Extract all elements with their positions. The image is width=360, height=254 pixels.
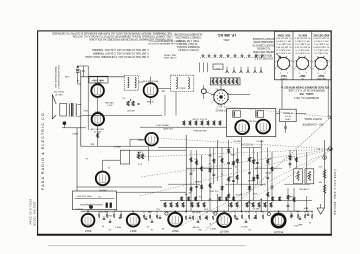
tube socket view 6SQ7	[315, 57, 327, 69]
wire : V5 feed	[102, 160, 104, 171]
svg-text:7: 7	[286, 55, 287, 57]
capacitor C5 trimmer circle	[201, 89, 206, 94]
svg-text:TRIMMERS FOR MAX.: TRIMMERS FOR MAX.	[176, 45, 200, 48]
capacitor grid caps near tubes	[165, 212, 168, 215]
wire : chart drop	[281, 80, 283, 109]
svg-text:25 MF: 25 MF	[264, 171, 270, 173]
svg-text:5: 5	[312, 60, 313, 62]
resistor R20 in power box	[87, 204, 95, 206]
svg-text:REF 28: REF 28	[113, 145, 121, 147]
svg-text:HT 6.3AC FL 0: HT 6.3AC FL 0	[294, 43, 309, 46]
svg-text:I.F. 456: I.F. 456	[146, 100, 154, 102]
wire : v x261.2	[260, 140, 262, 186]
svg-text:8 MF: 8 MF	[252, 192, 257, 194]
svg-text:REF 21: REF 21	[233, 139, 241, 141]
svg-text:.05 10 K .01 250: .05 10 K .01 250	[192, 117, 208, 119]
svg-text:8: 8	[310, 59, 311, 61]
svg-text:I.F. 456 KC: I.F. 456 KC	[215, 109, 227, 111]
node : pilot lamp	[323, 156, 327, 160]
tube V4	[145, 133, 158, 146]
svg-text:ANT. - CONVERTER: ANT. - CONVERTER	[302, 122, 323, 125]
svg-text:2- SET DIAL AT 1400 KC ADJ. C: 2- SET DIAL AT 1400 KC ADJ. C-2A ANT. TR…	[93, 52, 149, 55]
transformer T2 2nd IF	[171, 75, 194, 91]
svg-text:VOLTAGE READINGS TAKEN WITH SE: VOLTAGE READINGS TAKEN WITH SET	[283, 85, 329, 88]
svg-text:1: 1	[230, 100, 231, 102]
svg-text:REF 28A: REF 28A	[105, 101, 114, 104]
svg-text:4: 4	[211, 101, 212, 103]
svg-text:SOCKET CONTACTS: SOCKET CONTACTS	[252, 43, 275, 46]
svg-text:470K: 470K	[235, 193, 240, 195]
node : AF coupling box	[120, 150, 129, 164]
svg-text:8: 8	[230, 93, 231, 95]
tube socket bottom view	[214, 90, 228, 104]
resistor R5	[97, 133, 99, 138]
svg-text:3: 3	[299, 72, 300, 74]
svg-text:22A: 22A	[161, 90, 165, 93]
svg-text:GR -7.5 KA 0 V: GR -7.5 KA 0 V	[313, 40, 328, 43]
svg-text:PL 250 SG 95 V: PL 250 SG 95 V	[275, 37, 291, 39]
svg-text:GR -7.5 KA 0 V: GR -7.5 KA 0 V	[276, 40, 291, 43]
svg-text:-OSC-: -OSC-	[223, 38, 231, 42]
svg-text:.05: .05	[198, 195, 202, 197]
tube V9 6V6-GT	[217, 213, 231, 227]
svg-text:2ND DET. 26A: 2ND DET. 26A	[90, 128, 104, 131]
svg-text:6: 6	[216, 88, 217, 90]
wire : V4 left lead	[130, 138, 145, 140]
wire : rail y147.6	[158, 147, 232, 149]
wire : bus y200.6	[160, 200, 312, 202]
capacitor C20 dark terminals	[106, 203, 108, 208]
svg-text:6K6-GT: 6K6-GT	[98, 189, 107, 191]
resistor R40	[323, 170, 326, 179]
svg-text:100: 100	[228, 175, 232, 177]
svg-text:3: 3	[318, 72, 319, 74]
wire : left vertical rail	[80, 70, 82, 146]
svg-text:METER 1000 OHMS: METER 1000 OHMS	[253, 50, 274, 52]
svg-text:TONE 50K: TONE 50K	[298, 188, 309, 190]
svg-text:1- SET DIAL AT 1500 KC ADJ. C: 1- SET DIAL AT 1500 KC ADJ. C-6A OSC. TR…	[92, 48, 149, 51]
svg-text:8: 8	[291, 59, 292, 61]
wire : v x148.8	[148, 145, 150, 161]
resistor extra above tubes	[180, 194, 280, 201]
svg-text:6SK7: 6SK7	[94, 110, 100, 112]
svg-text:150: 150	[269, 187, 273, 189]
node : output stage box	[227, 109, 276, 137]
wire : v x217.5	[217, 140, 219, 181]
wire : V1-V3 link	[97, 97, 99, 113]
svg-text:.05: .05	[108, 228, 112, 230]
svg-text:REF 3: REF 3	[114, 226, 121, 228]
svg-text:20 H: 20 H	[293, 224, 298, 226]
svg-text:©1946 John F. Rider, Publisher: ©1946 John F. Rider, Publisher	[333, 169, 336, 216]
svg-text:6SQ7: 6SQ7	[171, 229, 178, 233]
svg-text:1 MEG: 1 MEG	[194, 180, 201, 182]
tube V8 6SQ7	[168, 213, 182, 227]
svg-text:PER VOLT. LINE: PER VOLT. LINE	[255, 53, 272, 55]
svg-text:CORD VIEW: CORD VIEW	[163, 56, 177, 58]
svg-text:.02: .02	[248, 228, 252, 230]
svg-text:CONNECT SIGNAL GEN.: CONNECT SIGNAL GEN.	[175, 36, 201, 39]
wire : V2 up	[150, 77, 152, 83]
ground symbol	[317, 208, 324, 214]
wire : sheet border frame	[38, 31, 332, 234]
tube V5	[96, 172, 110, 186]
wire : v x186	[185, 135, 187, 211]
wire : rail y187	[77, 186, 162, 188]
wire : socket leads	[228, 94, 250, 96]
wire : v x306.8	[306, 152, 308, 183]
transformer T3 power box	[72, 191, 116, 210]
resistor R41	[323, 185, 326, 194]
svg-text:PAGE 22-6 FADA: PAGE 22-6 FADA	[30, 199, 33, 225]
svg-text:1: 1	[310, 66, 311, 68]
svg-text:MODEL 790,790T: MODEL 790,790T	[33, 201, 36, 226]
tube V12	[256, 120, 270, 134]
svg-text:OF 6SA7, ADJ. I.F.: OF 6SA7, ADJ. I.F.	[178, 42, 197, 45]
wire : V2 down	[150, 97, 152, 104]
svg-text:10K: 10K	[318, 181, 322, 183]
wire : gap stubs bottom row	[99, 211, 312, 213]
svg-text:8-: 8-	[209, 222, 211, 224]
tube socket view 6SA7	[278, 57, 290, 69]
svg-text:4: 4	[313, 67, 314, 69]
wire : trimmer row link	[200, 56, 263, 58]
wire : V2 to T2 box	[158, 88, 171, 90]
svg-text:100: 100	[217, 155, 221, 157]
svg-text:C-12: C-12	[147, 211, 152, 213]
svg-text:C-17 .05: C-17 .05	[99, 211, 108, 213]
capacitor C2A antenna trimmer stack	[76, 65, 79, 67]
wire : rail to output box	[140, 126, 227, 128]
svg-text:6SQ7: 6SQ7	[317, 74, 324, 77]
resistor strings inverter area	[247, 148, 259, 212]
svg-text:7: 7	[305, 55, 306, 57]
wire : rail y115.6	[81, 115, 162, 117]
node : speaker plug box	[280, 109, 297, 121]
svg-text:OPERATING ON 117 V. A.C. LINE.: OPERATING ON 117 V. A.C. LINE.	[288, 89, 325, 92]
svg-text:2: 2	[324, 71, 325, 73]
wire : ant top rail	[78, 65, 89, 67]
wire : bottom bus	[81, 210, 313, 212]
svg-text:OUTPUT AT 456 KC.: OUTPUT AT 456 KC.	[177, 48, 199, 51]
wire : rail y146	[81, 145, 148, 147]
transformer T4 marks	[233, 111, 241, 117]
tube V2	[144, 83, 158, 97]
wire : dial cord diagonals	[140, 106, 333, 231]
svg-text:47 K: 47 K	[137, 162, 142, 164]
resistor strings volume area	[208, 148, 223, 212]
svg-text:20: 20	[161, 227, 164, 229]
capacitor trimmer row	[202, 54, 264, 58]
svg-text:PWR 115V 60CY: PWR 115V 60CY	[76, 195, 92, 197]
wire : x88 drop	[87, 66, 89, 84]
svg-text:3: 3	[280, 72, 281, 74]
wire : rail y192	[116, 191, 186, 193]
wire : rail y168.2	[186, 167, 232, 169]
svg-text:CONV.: CONV.	[280, 77, 287, 79]
svg-text:VIEW: VIEW	[285, 117, 290, 119]
wire : speaker drop to power box	[76, 128, 78, 191]
node : bus junction dots	[87, 210, 307, 212]
svg-text:USE OUTSIDE AERIAL: USE OUTSIDE AERIAL	[55, 65, 58, 88]
node : dial pulley B	[328, 116, 331, 119]
resistor row y120	[183, 117, 221, 131]
svg-text:6V6-GT: 6V6-GT	[219, 230, 228, 234]
svg-text:3: 3	[217, 106, 218, 108]
tube V6 6SA7	[82, 214, 95, 227]
svg-text:C-2A: C-2A	[65, 75, 70, 78]
svg-text:470K: 470K	[247, 179, 252, 181]
svg-text:6SK7 I.F.: 6SK7 I.F.	[297, 33, 307, 35]
svg-text:47K: 47K	[194, 157, 198, 159]
svg-text:220K: 220K	[230, 153, 235, 155]
resistor strings output bias	[264, 148, 273, 212]
svg-text:HT 6.3AC FL 0: HT 6.3AC FL 0	[313, 43, 328, 46]
transformer T1 1st IF	[124, 75, 138, 90]
svg-text:6: 6	[298, 55, 299, 57]
svg-text:REF 22: REF 22	[256, 139, 264, 141]
svg-text:3- SET DIAL AT 600 KC ADJ. C: 3- SET DIAL AT 600 KC ADJ. C-6B PADDER, …	[85, 55, 149, 58]
svg-text:FADA RADIO & ELECTRIC CO.: FADA RADIO & ELECTRIC CO.	[41, 110, 45, 190]
svg-text:REF. 12: REF. 12	[93, 130, 101, 132]
svg-text:5Y3-GT: 5Y3-GT	[274, 230, 283, 234]
capacitor C1 line cap	[82, 71, 85, 72]
wire : plug box links	[276, 113, 280, 115]
svg-text:GR -7.5 KA 0 V: GR -7.5 KA 0 V	[294, 40, 309, 43]
svg-text:MEASURED FROM: MEASURED FROM	[253, 40, 273, 43]
tube V11	[235, 120, 249, 134]
svg-text:1 MEG: 1 MEG	[136, 151, 143, 153]
wire : V1 plate up	[97, 77, 99, 85]
svg-text:6SQ7: 6SQ7	[137, 138, 144, 140]
svg-text:25M: 25M	[108, 214, 112, 216]
svg-text:456 KC: 456 KC	[178, 86, 185, 88]
svg-text:8 MF: 8 MF	[303, 207, 308, 209]
resistor filament string box	[210, 78, 240, 85]
svg-text:HT 6.3 AC 0 V: HT 6.3 AC 0 V	[276, 51, 290, 54]
speaker SP1	[52, 95, 56, 120]
svg-text:PL 250 SG 95 V: PL 250 SG 95 V	[313, 37, 329, 39]
svg-text:GR 0 KA 2.1 V: GR 0 KA 2.1 V	[314, 48, 329, 51]
svg-text:4: 4	[294, 67, 295, 69]
svg-text:1: 1	[291, 66, 292, 68]
node : tube voltage chart box	[275, 31, 331, 79]
svg-text:DIAL DRIVE: DIAL DRIVE	[163, 54, 176, 57]
svg-text:50: 50	[101, 225, 104, 227]
node : tone pots boxed	[294, 169, 303, 184]
svg-text:250 V.: 250 V.	[106, 104, 112, 106]
svg-text:FADA - 790: FADA - 790	[299, 92, 313, 96]
wire : rail x88	[87, 84, 89, 130]
svg-text:RATED 150 V.: RATED 150 V.	[155, 124, 168, 127]
svg-text:6: 6	[317, 55, 318, 57]
svg-text:AVC: AVC	[89, 143, 94, 146]
wire : chart right drop	[327, 80, 329, 116]
wire : v x241.3	[240, 137, 242, 212]
wire : speaker leads	[78, 104, 81, 106]
svg-text:GR 0 KA 2.1 V: GR 0 KA 2.1 V	[295, 48, 310, 51]
svg-text:P.M. SPKR: P.M. SPKR	[163, 127, 173, 129]
transformer T5 speaker output	[68, 104, 71, 117]
svg-text:6V6 6V6: 6V6 6V6	[248, 119, 257, 121]
svg-text:2: 2	[287, 71, 288, 73]
svg-text:REF 19: REF 19	[252, 207, 260, 209]
svg-text:1: 1	[329, 66, 330, 68]
svg-text:2: 2	[306, 71, 307, 73]
svg-text:SCHEMATIC No. 790-1: SCHEMATIC No. 790-1	[293, 96, 319, 99]
svg-text:ATCH 4: ATCH 4	[75, 208, 83, 211]
wire : rail y184.2	[168, 183, 200, 185]
svg-text:REF 9: REF 9	[209, 227, 216, 229]
svg-text:VCS: VCS	[290, 155, 295, 157]
resistor cluster under V4	[136, 151, 143, 165]
svg-text:16MF: 16MF	[288, 195, 294, 197]
wire : top rail left	[81, 76, 124, 78]
svg-text:B+: B+	[84, 157, 87, 159]
svg-text:R-6: R-6	[156, 208, 160, 210]
resistor grid cluster under V2	[122, 97, 140, 111]
svg-text:SOCKET VOLTAGES: SOCKET VOLTAGES	[252, 37, 274, 40]
node : socket key arrow	[276, 53, 280, 57]
tube V1	[91, 84, 104, 97]
resistor clusters between bottom tubes	[98, 214, 313, 220]
svg-text:6SA7 CONV.: 6SA7 CONV.	[91, 79, 104, 82]
node : dial pulley	[329, 147, 332, 150]
svg-text:5: 5	[293, 60, 294, 62]
wire : V3 down	[97, 125, 99, 146]
capacitor group between bottom tubes	[103, 212, 310, 223]
svg-text:PL 248 SG 98 V: PL 248 SG 98 V	[313, 45, 329, 47]
svg-text:50M: 50M	[204, 208, 208, 210]
svg-text:7: 7	[324, 55, 325, 57]
wire : rail y150	[120, 149, 186, 151]
svg-text:OUTPUT 6V6: OUTPUT 6V6	[240, 143, 253, 145]
svg-text:PL 250 SG 95 V: PL 250 SG 95 V	[294, 37, 310, 39]
svg-text:GR 0 KA 2.1 V: GR 0 KA 2.1 V	[276, 48, 291, 51]
capacitor C30	[284, 127, 287, 128]
svg-text:8: 8	[329, 59, 330, 61]
tube V3	[92, 113, 104, 125]
svg-text:8MF: 8MF	[297, 223, 302, 225]
svg-text:250: 250	[197, 228, 201, 230]
svg-text:250: 250	[267, 157, 271, 159]
svg-text:.02: .02	[208, 162, 212, 164]
svg-text:DET.AVC: DET.AVC	[316, 77, 326, 80]
svg-text:LOC: LOC	[215, 67, 220, 69]
svg-text:REF No.14 S.W.: REF No.14 S.W.	[142, 79, 158, 81]
svg-text:40: 40	[308, 221, 311, 223]
svg-text:6SK7: 6SK7	[299, 74, 306, 77]
svg-text:6SA7 CONV.: 6SA7 CONV.	[277, 33, 291, 36]
svg-text:.02: .02	[107, 166, 111, 168]
wire : right rail	[324, 140, 326, 208]
resistor strings AVC area	[227, 140, 240, 211]
svg-text:445 450: 445 450	[126, 109, 134, 111]
svg-text:HT 6.3 AC 0 V: HT 6.3 AC 0 V	[295, 51, 309, 54]
svg-text:5: 5	[275, 60, 276, 62]
svg-text:HT 6.3AC FL 0: HT 6.3AC FL 0	[276, 43, 291, 46]
svg-text:6SK7: 6SK7	[129, 229, 136, 233]
node : wave switch group	[213, 64, 223, 69]
tube socket view 6SK7	[296, 57, 308, 69]
svg-text:REF. 30: REF. 30	[55, 93, 63, 95]
svg-text:250V: 250V	[83, 109, 88, 111]
svg-text:I.F. 456 KC.: I.F. 456 KC.	[217, 33, 236, 37]
svg-text:.01: .01	[150, 228, 154, 230]
svg-text:6SA7: 6SA7	[280, 74, 287, 77]
svg-text:FOR BEST RECEPTION: FOR BEST RECEPTION	[59, 65, 61, 89]
capacitor C21 electrolytic	[63, 121, 67, 125]
tube V7 6SK7	[127, 214, 140, 227]
svg-text:445 450 MEG: 445 450 MEG	[193, 129, 206, 131]
svg-text:25: 25	[146, 225, 149, 227]
svg-text:REF 17: REF 17	[240, 225, 248, 227]
svg-text:I.F.: I.F.	[301, 77, 304, 79]
wire : T2 box drop	[175, 92, 177, 116]
wire : page edge artifact	[48, 245, 246, 247]
tube V10 5Y3-GT	[272, 214, 285, 227]
svg-text:REF. 8: REF. 8	[94, 82, 101, 84]
svg-text:B+: B+	[316, 147, 319, 149]
svg-text:250: 250	[187, 191, 191, 193]
resistor strings detector area	[187, 150, 202, 211]
svg-text:6SA7: 6SA7	[84, 229, 91, 233]
svg-text:50 REF: 50 REF	[192, 226, 200, 228]
resistor row above tubes	[164, 202, 272, 207]
wire : ant to rail	[78, 83, 81, 85]
svg-text:VOL 500K: VOL 500K	[209, 189, 219, 191]
svg-text:ALIGNMENT PROCEDURE: ALIGNMENT PROCEDURE	[173, 33, 202, 36]
svg-text:7: 7	[224, 87, 225, 89]
svg-text:6SQ7 DET.AVC: 6SQ7 DET.AVC	[313, 33, 329, 36]
svg-text:THRU .1 MF TO GRID: THRU .1 MF TO GRID	[176, 39, 199, 41]
svg-text:PL 248 SG 98 V: PL 248 SG 98 V	[294, 45, 310, 47]
svg-text:4: 4	[275, 67, 276, 69]
node : osc coil label box	[89, 76, 108, 83]
svg-text:HT 6.3 AC 0 V: HT 6.3 AC 0 V	[314, 51, 328, 54]
svg-text:TO CHASSIS.: TO CHASSIS.	[256, 47, 271, 50]
svg-text:470: 470	[318, 165, 322, 167]
svg-text:PL 248 SG 98 V: PL 248 SG 98 V	[275, 45, 291, 47]
svg-text:FIELD: FIELD	[72, 132, 78, 134]
svg-text:B+: B+	[97, 195, 100, 197]
svg-text:SPKR 790: SPKR 790	[53, 90, 64, 92]
resistor cluster rectifier area	[287, 150, 298, 211]
svg-text:PLUG: PLUG	[285, 114, 291, 116]
svg-text:.05: .05	[122, 97, 126, 99]
svg-text:OUTPUT TRANS.: OUTPUT TRANS.	[304, 117, 322, 120]
